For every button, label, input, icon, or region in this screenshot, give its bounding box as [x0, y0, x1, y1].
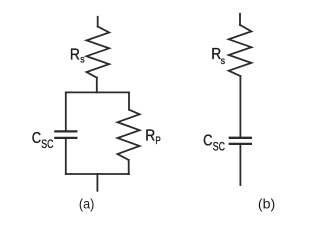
svg-text:(a): (a): [79, 195, 94, 211]
wire bottom lead (b): [239, 145, 241, 185]
label Rs (b): [211, 46, 225, 67]
label CSC (b): [203, 132, 225, 153]
wire left branch upper (a): [65, 92, 67, 130]
svg-text:SC: SC: [41, 137, 54, 151]
wire top lead (b): [239, 14, 241, 25]
resistor R2 Rp zigzag (a): [118, 110, 140, 160]
svg-text:C: C: [203, 132, 212, 149]
capacitor C1 CSC plates (a): [55, 131, 76, 138]
label Rs (a): [70, 47, 85, 66]
resistor R3 Rs zigzag (b): [229, 25, 252, 76]
wire middle lead (b): [239, 76, 241, 137]
svg-text:SC: SC: [213, 140, 226, 154]
wire box bottom (a): [66, 173, 129, 175]
capacitor C2 CSC plates (b): [230, 138, 251, 144]
wire top lead (a): [97, 17, 99, 27]
wire box top (a): [66, 91, 129, 93]
wire right branch upper (a): [128, 92, 130, 109]
svg-text:s: s: [221, 55, 225, 67]
wire right branch lower (a): [128, 160, 130, 174]
wire bottom stem (a): [96, 174, 98, 191]
svg-text:P: P: [155, 135, 160, 147]
label Rp (a): [145, 127, 160, 147]
svg-text:C: C: [32, 130, 41, 147]
resistor R1 Rs zigzag (a): [87, 27, 110, 78]
svg-text:s: s: [80, 53, 84, 65]
wire left branch lower (a): [65, 139, 67, 174]
svg-text:R: R: [70, 47, 80, 64]
svg-text:(b): (b): [258, 195, 275, 211]
wire Rs bottom lead (a): [96, 78, 98, 93]
svg-text:R: R: [145, 127, 155, 144]
label CSC (a): [32, 130, 54, 151]
